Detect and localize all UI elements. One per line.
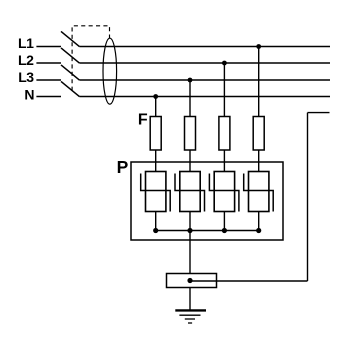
bus wire <box>156 230 259 232</box>
surge arrester element 1 <box>141 172 171 212</box>
node bus 1 <box>153 228 158 233</box>
wire fuse 3 to arrester 3 <box>223 150 225 172</box>
wire fuse 1 to arrester 1 <box>155 150 157 172</box>
wire L1 left stub <box>36 46 61 48</box>
wire L1 main <box>79 46 330 48</box>
wire arrester 3 to bus <box>223 212 225 231</box>
wire N main <box>79 96 330 98</box>
cable grouping ellipse <box>103 38 117 104</box>
wire box to PE riser <box>190 280 308 282</box>
switch L1 blade <box>61 31 79 46</box>
wire L2 left stub <box>36 62 61 64</box>
fuse F2 <box>185 117 196 151</box>
node bus 4 <box>256 228 261 233</box>
wire L2 main <box>79 62 330 64</box>
fuse F4 <box>253 117 264 151</box>
svg-text:N: N <box>24 86 34 102</box>
svg-text:L2: L2 <box>18 52 34 68</box>
fuse F1 <box>150 117 161 151</box>
node on L3 <box>188 78 193 83</box>
svg-text:F: F <box>138 112 148 129</box>
switch L3 blade <box>61 65 79 80</box>
SPD enclosure box P <box>131 162 283 240</box>
switch N blade <box>61 81 79 96</box>
surge arrester element 3 <box>209 172 239 212</box>
PE top wire <box>308 112 330 114</box>
mechanical linkage dashed line <box>72 26 109 91</box>
wire box to ground <box>189 288 191 311</box>
svg-text:L3: L3 <box>18 69 34 85</box>
node on L1 <box>256 44 261 49</box>
node on L2 <box>222 61 227 66</box>
wire L3 tap down to fuse 2 <box>189 80 191 117</box>
wire fuse 4 to arrester 4 <box>258 150 260 172</box>
ground <box>175 310 206 323</box>
node in disconnection box <box>187 278 192 283</box>
node on N <box>153 94 158 99</box>
wire L3 left stub <box>36 79 61 81</box>
svg-text:L1: L1 <box>18 35 34 51</box>
wire bus to disconnection box <box>189 231 191 274</box>
svg-text:P: P <box>117 157 129 177</box>
surge arrester element 2 <box>175 172 205 212</box>
node bus 2 <box>187 228 192 233</box>
wire fuse 2 to arrester 2 <box>189 150 191 172</box>
disconnection device box <box>167 274 217 288</box>
wire N tap down to fuse 1 <box>155 97 157 117</box>
wire L3 main <box>79 79 330 81</box>
wire L2 tap down to fuse 3 <box>223 63 225 117</box>
PE riser wire <box>307 113 309 281</box>
wire arrester 2 to bus <box>189 212 191 231</box>
switch L2 blade <box>61 48 79 63</box>
surge arrester element 4 <box>244 172 274 212</box>
wire L1 tap down to fuse 4 <box>258 47 260 117</box>
wire arrester 4 to bus <box>258 212 260 231</box>
wire N left stub <box>36 96 61 98</box>
node bus 3 <box>222 228 227 233</box>
fuse F3 <box>219 117 230 151</box>
wire arrester 1 to bus <box>155 212 157 231</box>
